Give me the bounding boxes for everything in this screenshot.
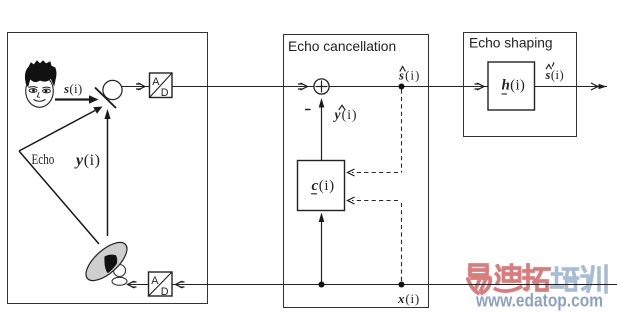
echo shaping box [464, 33, 577, 137]
echo path from loudspeaker to wall [19, 151, 99, 244]
arrow into c(i) lower [348, 197, 355, 204]
dashed control: s-hat node down to c(i) [352, 90, 402, 173]
wire: estimated echo from c(i) to summation [319, 98, 325, 161]
arrow into h(i) [475, 83, 485, 90]
talker face icon [25, 61, 56, 107]
output arrow [591, 83, 607, 90]
svg-text:D: D [161, 286, 169, 298]
svg-text:A: A [152, 76, 160, 88]
echo cancellation box [284, 35, 429, 308]
shaping filter h(i) [488, 62, 535, 110]
svg-text:y(i): y(i) [333, 107, 358, 122]
label s-hat-prime(i) [545, 62, 565, 82]
char 易 [468, 265, 490, 293]
svg-text:Echo cancellation: Echo cancellation [288, 39, 396, 54]
wire: top A/D to summation [172, 86, 314, 88]
svg-text:s(i): s(i) [545, 68, 565, 82]
wire: mic to A/D [122, 86, 150, 88]
svg-text:s(i): s(i) [398, 68, 420, 82]
wire: reference x(i) up into c(i) [319, 213, 325, 285]
char 训 [582, 266, 606, 292]
wire: direct echo y(i) up to mic [104, 109, 110, 236]
arrow into c(i) upper [348, 169, 355, 176]
svg-text:Echo shaping: Echo shaping [469, 35, 553, 50]
adaptive filter c(i) [298, 161, 345, 211]
svg-text:D: D [161, 87, 169, 99]
svg-text:www.edatop.com: www.edatop.com [475, 290, 603, 311]
svg-text:y(i): y(i) [74, 152, 101, 169]
loudspeaker [80, 236, 133, 287]
node x(i) [399, 282, 405, 288]
arrow into top A/D [136, 83, 145, 90]
svg-text:x(i): x(i) [397, 291, 420, 306]
dashed control: x(i) node up to c(i) [352, 201, 402, 282]
arrow into loudspeaker [128, 281, 137, 288]
svg-text:s(i): s(i) [63, 81, 83, 96]
char 迪 [496, 265, 521, 291]
microphone [95, 80, 122, 108]
wire: summation to output [329, 86, 607, 88]
char 培 [552, 268, 578, 290]
echo reflection path to mic [19, 107, 103, 152]
A/D converter (bottom, D/A) [149, 272, 173, 298]
label y-hat(i) [333, 105, 358, 122]
svg-text:c(i): c(i) [312, 178, 335, 194]
watermark 易迪拓培训 [468, 265, 606, 293]
room box (near-end acoustic path) [8, 33, 208, 304]
A/D converter (top) [150, 73, 173, 99]
wire: bottom A/D to loudspeaker [128, 284, 149, 286]
arrow into bottom A/D [176, 281, 185, 288]
svg-text:A: A [151, 275, 159, 287]
node s-hat(i) [399, 84, 405, 90]
wire: speech arrow s(i) into microphone [55, 95, 99, 103]
svg-text:h(i): h(i) [502, 77, 526, 93]
svg-text:Echo: Echo [32, 150, 55, 167]
label minus [305, 109, 311, 111]
summation node [314, 79, 329, 94]
arrow into summation [298, 83, 308, 90]
label s-hat(i) [398, 67, 420, 83]
wire: far-end signal to bottom A/D [172, 284, 617, 286]
junction on far-end line [319, 282, 325, 288]
char 拓 [524, 265, 549, 290]
